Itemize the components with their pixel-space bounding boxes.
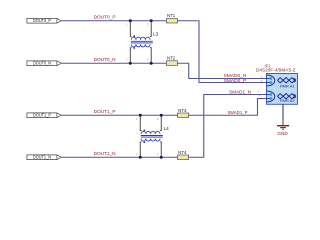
- svg-text:DOUT1_N: DOUT1_N: [94, 151, 116, 156]
- wire W2a DOUT0_N to NT2: [61, 62, 166, 64]
- pair A1 braid: [277, 78, 294, 83]
- svg-text:NT4: NT4: [178, 150, 187, 155]
- junction dots wire4: [139, 156, 142, 159]
- resistor NT3: [178, 113, 189, 118]
- transformer L3: [126, 21, 159, 64]
- svg-text:DOUT1_N: DOUT1_N: [33, 155, 51, 160]
- svg-text:PAIR A2: PAIR A2: [280, 99, 295, 103]
- pair A2 arc: [267, 91, 275, 102]
- svg-text:DOUT0_P: DOUT0_P: [33, 18, 51, 23]
- svg-text:DOUT0_N: DOUT0_N: [33, 61, 51, 66]
- resistor NT4: [178, 155, 189, 160]
- svg-text:L3: L3: [153, 32, 159, 37]
- pin lines inside IC: [267, 78, 271, 80]
- wire W4b NT4 to IC pin 2: [189, 95, 267, 158]
- resistor NT2: [166, 61, 177, 66]
- pair A2 braid: [277, 94, 294, 99]
- svg-text:SMAD1_P: SMAD1_P: [228, 110, 248, 115]
- wire W1b NT1 to IC pin 3: [178, 21, 267, 83]
- port DOUT0_P: [27, 18, 61, 23]
- svg-text:NT3: NT3: [178, 108, 187, 113]
- svg-text:SMAD0_P: SMAD0_P: [224, 78, 247, 83]
- port DOUT0_N: [27, 61, 61, 66]
- transformer L4: [136, 115, 169, 157]
- junction dots wire2: [129, 62, 132, 65]
- wire W4a DOUT1_N to NT4: [61, 156, 177, 158]
- svg-text:SMAD1_N: SMAD1_N: [229, 89, 251, 94]
- svg-text:NT2: NT2: [167, 56, 176, 61]
- svg-text:NT1: NT1: [167, 13, 176, 18]
- resistor NT1: [166, 19, 177, 24]
- svg-text:DOUT1_P: DOUT1_P: [94, 109, 116, 114]
- svg-text:DOUT1_P: DOUT1_P: [33, 113, 51, 118]
- ground GND: [277, 104, 289, 136]
- svg-text:L4: L4: [164, 126, 170, 131]
- svg-text:PAIR A1: PAIR A1: [280, 85, 295, 89]
- wire W3a DOUT1_P to NT3: [61, 114, 177, 116]
- junction dots wire1: [129, 19, 132, 22]
- wire W1a DOUT0_P to NT1: [61, 20, 166, 22]
- svg-text:DOUT0_N: DOUT0_N: [94, 57, 116, 62]
- svg-text:GND: GND: [277, 131, 288, 136]
- IC IP1: [256, 63, 298, 104]
- junction dots wire3: [139, 114, 142, 117]
- svg-text:DOUT0_P: DOUT0_P: [94, 15, 116, 20]
- svg-text:D4S20F-4/9MA5-Z: D4S20F-4/9MA5-Z: [256, 68, 296, 73]
- port DOUT1_N: [27, 155, 61, 160]
- port DOUT1_P: [27, 113, 61, 118]
- wire W2b NT2 to IC pin 1: [178, 63, 267, 78]
- pair A1 arc: [267, 75, 275, 86]
- wire W3b NT3 to IC pin 4: [189, 99, 267, 116]
